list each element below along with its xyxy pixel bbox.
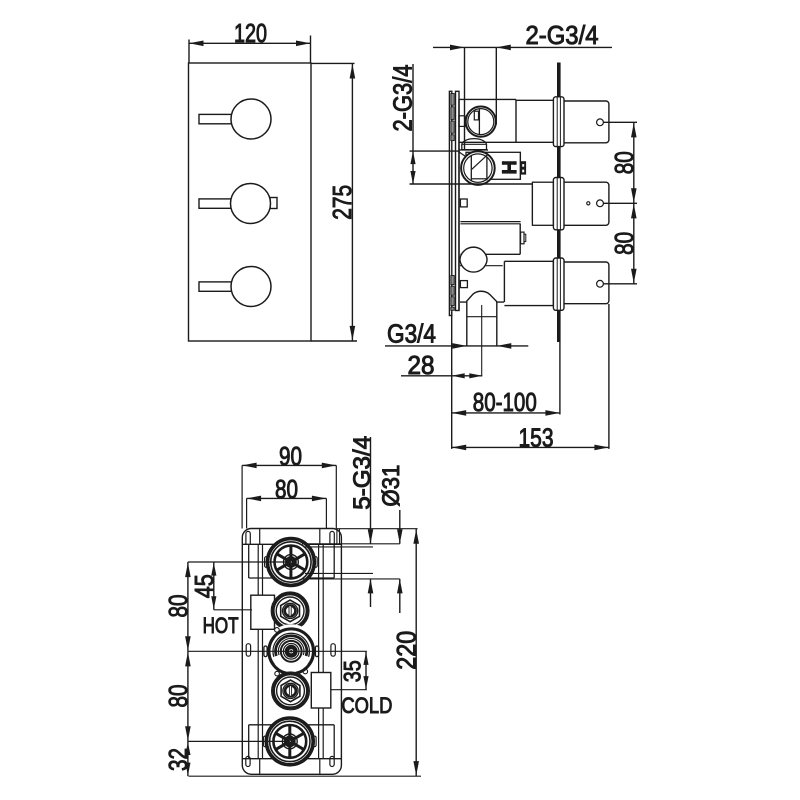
dim 35 <box>331 689 367 691</box>
side port circle 1 (top inlet) <box>466 107 496 137</box>
dim 275 extension lines <box>311 62 355 64</box>
dim 80 rear line <box>247 497 327 499</box>
dim 80 side upper <box>604 121 638 123</box>
knob 2 side button <box>270 198 277 209</box>
thermostat H-block <box>466 152 520 179</box>
svg-text:80: 80 <box>163 685 193 708</box>
port center line bottom <box>188 740 290 742</box>
svg-text:HOT: HOT <box>203 613 239 638</box>
dim 2-G3/4 left ticks <box>410 150 460 152</box>
svg-text:35: 35 <box>340 660 367 682</box>
dim G3/4 outlet: line and text <box>385 345 528 347</box>
svg-text:32: 32 <box>163 748 193 771</box>
bottom extension line <box>189 775 421 777</box>
port center line middle <box>188 650 367 652</box>
small screw dots near center port <box>275 628 280 633</box>
rear view: mounting bracket plate <box>242 529 341 775</box>
svg-text:Ø31: Ø31 <box>378 465 405 507</box>
bracket slot top-left <box>246 531 250 544</box>
bracket slot bottom-right <box>330 756 334 766</box>
dim 45 <box>213 562 215 610</box>
dim 80 side lower <box>604 283 638 285</box>
port center line top <box>188 561 291 563</box>
svg-text:153: 153 <box>519 422 554 452</box>
dim 5-G3/4 leader <box>370 437 372 544</box>
knob 2 <box>231 184 271 224</box>
bottom connection block to stub 3 <box>504 260 553 262</box>
svg-text:220: 220 <box>391 631 421 670</box>
bracket slot top-right <box>330 531 334 544</box>
port 5 bottom (G3/4 wheel) <box>265 717 314 766</box>
dim 275 line <box>351 63 353 341</box>
plate collar at stub 2 <box>553 178 564 230</box>
dim 120 line <box>189 42 311 44</box>
svg-text:COLD: COLD <box>341 693 392 718</box>
valve body upper block <box>459 98 516 100</box>
bracket slot mid-right <box>331 644 335 657</box>
front view: valve trim plate <box>189 63 312 341</box>
pipe stub 1 (rear inlet top) <box>564 101 609 143</box>
port 4 COLD inlet (hex) <box>272 672 310 710</box>
side view: wall mounting plate (edge-on) <box>449 91 451 315</box>
svg-text:2-G3/4: 2-G3/4 <box>387 65 417 132</box>
stub 1 screw hole <box>597 119 604 126</box>
dim 80 left upper <box>187 562 189 651</box>
wall plate screw slots upper <box>451 94 454 106</box>
bracket slot mid-left <box>246 644 250 657</box>
wall plate screw slots lower <box>451 276 454 285</box>
cartridge plug connector <box>521 232 524 244</box>
H symbol rotated <box>502 162 516 165</box>
top connection block to stub 1 <box>516 99 553 101</box>
HOT supply block <box>251 595 275 629</box>
knob 3 <box>231 267 271 307</box>
mid connection block to stub 2 <box>532 182 553 225</box>
COLD supply block <box>311 673 331 709</box>
dim 153 <box>608 304 610 449</box>
svg-text:275: 275 <box>327 185 357 220</box>
center port dome (lens shape, side view) <box>460 247 487 272</box>
outlet drop pipe <box>466 302 468 346</box>
dim 28 <box>401 375 482 377</box>
trim plate edge-on dark segments <box>557 63 561 97</box>
dim 220 line <box>415 529 417 777</box>
dim 90 line <box>242 464 336 466</box>
hex cap below port 1 <box>462 139 487 150</box>
top body block <box>242 543 341 545</box>
side port circle 2 (G3/4 outlet) <box>461 151 495 185</box>
outlet elbow dome <box>460 291 504 302</box>
dim 2-G3/4 top: extension lines <box>464 47 466 149</box>
dim 220 top extension <box>337 528 418 530</box>
svg-text:80: 80 <box>609 151 639 174</box>
stub 2 screw holes <box>597 200 604 207</box>
knob 2 handle <box>199 199 233 208</box>
stub 3 screw hole <box>597 280 604 287</box>
body mid deck lines <box>459 183 532 185</box>
svg-text:5-G3/4: 5-G3/4 <box>349 436 376 510</box>
plate collar at stub 3 <box>553 258 564 310</box>
svg-text:120: 120 <box>234 18 267 48</box>
dim 80 left lower <box>187 651 189 741</box>
port 2 HOT inlet (hex) <box>271 592 309 630</box>
svg-text:G3/4: G3/4 <box>387 318 436 348</box>
port 1 top (G3/4 wheel) <box>266 537 315 586</box>
left extension line for lower dims <box>451 312 453 449</box>
knob 3 handle <box>199 282 233 291</box>
dim 80-100 <box>559 342 561 415</box>
dim 80 rear extension lines <box>246 498 248 528</box>
dim 2-G3/4 left: leader line <box>412 64 414 184</box>
H-block plug connector <box>521 162 526 174</box>
svg-text:80: 80 <box>163 595 193 618</box>
dim 2-G3/4 top line <box>433 46 496 48</box>
port 3 center outlet <box>264 624 318 678</box>
svg-text:80: 80 <box>275 474 298 504</box>
knob 1 <box>231 99 271 139</box>
body tab upper <box>460 199 467 207</box>
dim O31 leader <box>399 510 401 544</box>
chamfer line plate to port 2 <box>458 151 467 157</box>
body tab lower <box>460 281 467 288</box>
body vertical edges behind plate <box>257 544 259 758</box>
dim 120 extension lines <box>188 40 190 64</box>
bottom body block <box>249 724 335 726</box>
svg-text:2-G3/4: 2-G3/4 <box>526 20 599 50</box>
pipe stub 2 (rear middle) <box>564 182 609 225</box>
cartridge block below deck <box>460 253 520 255</box>
hot port center line <box>214 609 252 611</box>
bracket slot bottom-left <box>246 756 250 766</box>
plate collar at stub 1 <box>553 97 564 147</box>
svg-text:90: 90 <box>279 441 302 471</box>
body lug left of top port <box>459 116 465 127</box>
knob 1 handle <box>199 114 233 123</box>
pipe stub 3 (rear bottom) <box>564 262 609 304</box>
svg-text:80-100: 80-100 <box>473 387 537 417</box>
dim 32 <box>187 741 189 776</box>
port 1 tangent tick lines <box>302 543 400 545</box>
svg-text:45: 45 <box>189 574 219 598</box>
dim 90 extension lines <box>241 465 243 528</box>
svg-text:28: 28 <box>408 350 435 380</box>
svg-text:80: 80 <box>609 232 639 255</box>
pipe center line <box>481 305 483 376</box>
body lower lines <box>460 265 503 267</box>
mid body right edge <box>519 152 521 179</box>
trim plate thin lines through collars <box>556 97 558 147</box>
